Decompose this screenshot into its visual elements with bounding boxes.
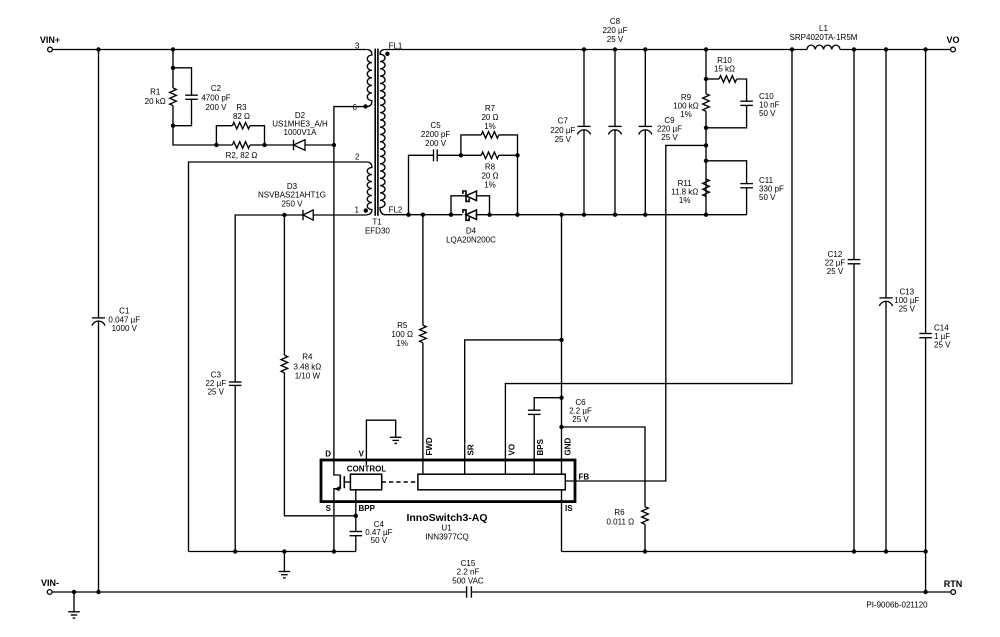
wire FL2 rail: [386, 214, 463, 216]
svg-text:VIN+: VIN+: [40, 35, 60, 45]
svg-text:EFD30: EFD30: [365, 227, 390, 236]
svg-text:1: 1: [355, 206, 360, 215]
node R10 top: [704, 77, 708, 81]
svg-text:0.011 Ω: 0.011 Ω: [606, 518, 634, 527]
capacitor C6: [534, 398, 561, 411]
svg-text:C7: C7: [558, 117, 569, 126]
transformer T1 primary upper winding pins 3-6: [367, 50, 372, 107]
svg-text:R10: R10: [717, 56, 732, 65]
svg-text:25 V: 25 V: [572, 415, 589, 424]
node C14 top: [923, 47, 927, 51]
capacitor C5: [409, 155, 434, 214]
svg-text:50 V: 50 V: [371, 536, 388, 545]
capacitor C8: [614, 50, 616, 127]
wire FB line: [565, 145, 706, 481]
wire pin2 to primary ground: [189, 162, 367, 552]
wire bottom rail left: [52, 591, 467, 593]
svg-text:25 V: 25 V: [555, 135, 572, 144]
resistor R8: [461, 154, 481, 156]
node C1 bottom: [96, 590, 100, 594]
node C13 top: [884, 47, 888, 51]
resistor R7: [461, 135, 481, 155]
svg-text:C2: C2: [211, 84, 222, 93]
svg-text:100 Ω: 100 Ω: [391, 330, 413, 339]
svg-text:SRP4020TA-1R5M: SRP4020TA-1R5M: [790, 33, 858, 42]
node C9 top: [643, 47, 647, 51]
svg-text:FL2: FL2: [389, 206, 403, 215]
transformer T1 secondary winding FL1-FL2: [380, 50, 386, 215]
node C8 top: [613, 47, 617, 51]
capacitor C13: [885, 50, 887, 298]
svg-text:T1: T1: [372, 218, 382, 227]
svg-text:INN3977CQ: INN3977CQ: [425, 533, 469, 542]
resistor R10: [706, 78, 719, 80]
wire divider string: [705, 50, 707, 94]
ground symbol at V pin: [390, 436, 402, 438]
svg-text:S: S: [326, 504, 332, 513]
svg-text:VO: VO: [946, 35, 959, 45]
node C7 bottom: [582, 213, 586, 217]
svg-text:220 µF: 220 µF: [550, 126, 575, 135]
capacitor C7: [583, 50, 585, 127]
wire snubber right down: [517, 155, 519, 214]
svg-text:50 V: 50 V: [759, 193, 776, 202]
capacitor C3: [229, 381, 242, 383]
node R5 tap: [421, 213, 425, 217]
capacitor C1: [92, 317, 105, 319]
resistor R5: [422, 215, 424, 326]
svg-text:PI-9006b-021120: PI-9006b-021120: [866, 601, 928, 610]
terminal VIN-: [47, 590, 52, 595]
svg-text:1000V1A: 1000V1A: [284, 128, 318, 137]
inductor L1: [807, 45, 840, 49]
wire secondary return rail: [562, 552, 926, 593]
node snubber right: [515, 213, 519, 217]
node ground tie: [282, 549, 286, 553]
wire GND pin line: [561, 215, 563, 475]
capacitor C15: [466, 586, 468, 597]
svg-text:R7: R7: [485, 104, 496, 113]
node S pin bottom: [332, 549, 336, 553]
svg-text:25 V: 25 V: [899, 305, 916, 314]
node C14 bottom: [923, 549, 927, 553]
svg-text:20 Ω: 20 Ω: [481, 113, 498, 122]
svg-text:3: 3: [355, 41, 360, 50]
svg-text:LQA20N200C: LQA20N200C: [446, 236, 496, 245]
svg-text:CONTROL: CONTROL: [347, 465, 387, 474]
svg-text:25 V: 25 V: [934, 341, 951, 350]
node junction C1 top: [96, 47, 100, 51]
node R6 bottom: [643, 549, 647, 553]
svg-text:25 V: 25 V: [661, 133, 678, 142]
diode D2: [293, 140, 295, 150]
svg-text:D: D: [325, 450, 331, 459]
wire top rail after L1: [840, 49, 951, 51]
wire R2 right to D2: [265, 144, 294, 146]
svg-text:R8: R8: [485, 163, 496, 172]
wire R6 branch: [562, 427, 646, 507]
MOSFET Q inside IC: [334, 460, 340, 475]
wire bottom rail right: [471, 591, 950, 593]
svg-text:1%: 1%: [680, 110, 692, 119]
wire top rail primary: [52, 49, 366, 51]
svg-text:1%: 1%: [396, 339, 408, 348]
svg-text:25 V: 25 V: [827, 267, 844, 276]
node GND line top: [559, 213, 563, 217]
capacitor C2: [173, 68, 192, 95]
svg-text:1/10 W: 1/10 W: [295, 372, 321, 381]
svg-text:R5: R5: [397, 321, 408, 330]
svg-text:SR: SR: [467, 444, 476, 455]
svg-text:1%: 1%: [679, 196, 691, 205]
svg-text:RTN: RTN: [944, 579, 963, 589]
node C12 top: [852, 47, 856, 51]
IC U1 InnoSwitch3-AQ outer box: [321, 460, 575, 502]
svg-text:C8: C8: [610, 17, 621, 26]
svg-text:200 V: 200 V: [425, 139, 447, 148]
capacitor C12: [853, 50, 855, 260]
wire IS pin: [561, 490, 563, 552]
svg-text:C1: C1: [119, 307, 130, 316]
node R8 right: [515, 153, 519, 157]
svg-text:V: V: [359, 450, 365, 459]
node C12 bottom: [852, 549, 856, 553]
svg-text:FWD: FWD: [425, 437, 434, 455]
diode D3: [284, 214, 303, 216]
node R2/R3 left: [214, 143, 218, 147]
resistor R3: [216, 126, 232, 145]
node C7 top: [582, 47, 586, 51]
svg-text:20 Ω: 20 Ω: [481, 172, 498, 181]
ground symbol at VIN-: [73, 592, 75, 612]
node R2/R3 right: [262, 143, 266, 147]
node R9 bottom: [704, 126, 708, 130]
IC secondary block box: [418, 474, 565, 490]
capacitor C4: [355, 516, 357, 532]
terminal VIN+: [48, 47, 53, 52]
node D2 anode / drain: [332, 143, 336, 147]
svg-text:22 µF: 22 µF: [205, 379, 226, 388]
resistor R6: [642, 507, 649, 525]
node C5 tap: [406, 213, 410, 217]
transformer phase dot pin 1: [364, 208, 368, 212]
node R6 top tie: [559, 425, 563, 429]
node C11 tap: [704, 159, 708, 163]
svg-text:50 V: 50 V: [759, 109, 776, 118]
wire top rail secondary FL1: [386, 49, 808, 51]
svg-text:NSVBAS21AHT1G: NSVBAS21AHT1G: [258, 191, 326, 200]
svg-text:R1: R1: [150, 88, 161, 97]
svg-text:R3: R3: [236, 103, 247, 112]
svg-text:U1: U1: [441, 524, 452, 533]
node BPP junction: [354, 514, 358, 518]
wire R1 bottom to R2 left node: [173, 126, 216, 145]
ground symbol primary rail: [283, 552, 285, 572]
svg-text:D4: D4: [466, 227, 477, 236]
svg-text:GND: GND: [563, 438, 572, 456]
transformer T1 core: [374, 49, 376, 216]
node D4 left: [449, 213, 453, 217]
resistor R9: [703, 94, 710, 112]
wire SR tie: [465, 340, 562, 474]
terminal RTN: [951, 590, 956, 595]
node C13 bottom: [884, 549, 888, 553]
wire V pin to ground: [366, 420, 395, 465]
svg-text:BPS: BPS: [536, 438, 545, 455]
wire R1 branch top: [172, 50, 174, 89]
node junction R1 top: [171, 47, 175, 51]
node RTN tie: [923, 590, 927, 594]
node bottom ground tie: [72, 590, 76, 594]
wire pin6 connection: [334, 107, 367, 145]
IC control box: [350, 474, 381, 490]
node C3 bottom: [233, 549, 237, 553]
node divider top: [704, 47, 708, 51]
svg-text:3.48 kΩ: 3.48 kΩ: [294, 362, 322, 371]
wire VO sense line: [505, 50, 792, 475]
svg-text:4700 pF: 4700 pF: [201, 94, 230, 103]
node D3 cathode: [282, 213, 286, 217]
resistor R1: [170, 88, 177, 106]
node C9 bottom: [643, 213, 647, 217]
svg-text:82 Ω: 82 Ω: [233, 112, 250, 121]
svg-text:L1: L1: [819, 24, 828, 33]
node R11 bottom: [704, 213, 708, 217]
transformer phase dot pin 6: [363, 104, 367, 108]
svg-text:IS: IS: [565, 504, 573, 513]
svg-text:25 V: 25 V: [607, 35, 624, 44]
svg-text:500 VAC: 500 VAC: [452, 576, 484, 585]
wire drain line down to IC D pin: [333, 145, 335, 460]
svg-text:1000 V: 1000 V: [112, 324, 138, 333]
svg-text:25 V: 25 V: [208, 388, 225, 397]
svg-text:VIN-: VIN-: [41, 578, 59, 588]
svg-text:C15: C15: [461, 559, 476, 568]
svg-text:FB: FB: [579, 473, 590, 482]
svg-text:R2, 82 Ω: R2, 82 Ω: [226, 151, 258, 160]
svg-text:BPP: BPP: [359, 504, 376, 513]
wire C3 branch: [235, 215, 284, 382]
capacitor C14: [925, 50, 927, 334]
wire C1 branch vertical: [98, 50, 100, 318]
node R1/C2 bottom: [171, 124, 175, 128]
node FB tap: [704, 143, 708, 147]
capacitor C9: [644, 50, 646, 127]
svg-text:R4: R4: [302, 353, 313, 362]
terminal VO: [951, 47, 956, 52]
svg-text:C5: C5: [430, 121, 441, 130]
node VO sense: [790, 47, 794, 51]
svg-text:220 µF: 220 µF: [602, 26, 627, 35]
IC dashed link: [382, 481, 418, 483]
svg-text:200 V: 200 V: [206, 103, 228, 112]
capacitor C11: [706, 161, 747, 184]
transformer T1 primary lower winding pins 2-1: [367, 162, 372, 215]
transformer phase dot FL1: [385, 52, 389, 56]
diode D4 upper: [451, 196, 466, 215]
svg-text:2.2 nF: 2.2 nF: [457, 568, 480, 577]
node D4 right: [487, 213, 491, 217]
capacitor C10: [740, 100, 753, 102]
svg-text:2200 pF: 2200 pF: [421, 130, 450, 139]
svg-text:2: 2: [355, 153, 360, 162]
node C6 tie: [559, 396, 563, 400]
svg-text:InnoSwitch3-AQ: InnoSwitch3-AQ: [406, 512, 487, 524]
resistor R2: [216, 144, 232, 146]
svg-text:15 kΩ: 15 kΩ: [714, 65, 735, 74]
wire R4 to BPP: [284, 373, 355, 516]
node snubber left: [459, 153, 463, 157]
node SR tie: [559, 338, 563, 342]
svg-text:20 kΩ: 20 kΩ: [145, 97, 166, 106]
node C8 bottom: [613, 213, 617, 217]
svg-text:6: 6: [353, 103, 358, 112]
svg-text:250 V: 250 V: [282, 200, 304, 209]
svg-text:1%: 1%: [484, 181, 496, 190]
wire BPP pin: [355, 490, 357, 516]
resistor R4: [283, 215, 285, 355]
svg-text:0.047 µF: 0.047 µF: [108, 315, 140, 324]
wire primary ground rail: [189, 551, 356, 553]
svg-text:VO: VO: [507, 444, 516, 456]
diode D4 lower: [463, 210, 469, 220]
svg-text:1%: 1%: [484, 122, 496, 131]
resistor R11: [703, 179, 710, 197]
svg-text:R6: R6: [614, 508, 625, 517]
node R1/C2 top: [171, 66, 175, 70]
